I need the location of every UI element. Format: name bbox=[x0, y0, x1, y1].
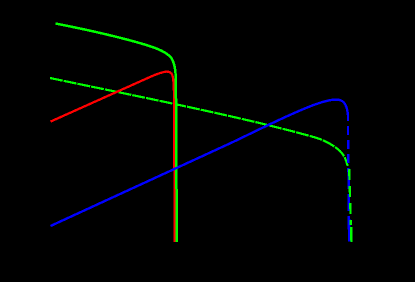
curve: blue near-vertical dashed drop (upper) bbox=[347, 112, 350, 172]
curve: green I-V curve A (cell 1), gentle decline, knee, vertical drop bbox=[56, 24, 177, 243]
curve: blue near-vertical dashed drop (lower) bbox=[347, 172, 350, 225]
curve: blue drop solid tail bbox=[348, 225, 351, 242]
curve: blue power curve (cell 2), rising line to peak bbox=[51, 100, 350, 242]
curve: red power curve (cell 1), rising line to peak then vertical drop bbox=[51, 72, 175, 242]
curve: green I-V curve B (cell 2), long gentle decline with knee bbox=[50, 78, 348, 166]
curve: green B drop solid tail bbox=[350, 227, 353, 242]
curve: green B near-vertical dashed drop (drawn over blue) bbox=[349, 169, 351, 242]
